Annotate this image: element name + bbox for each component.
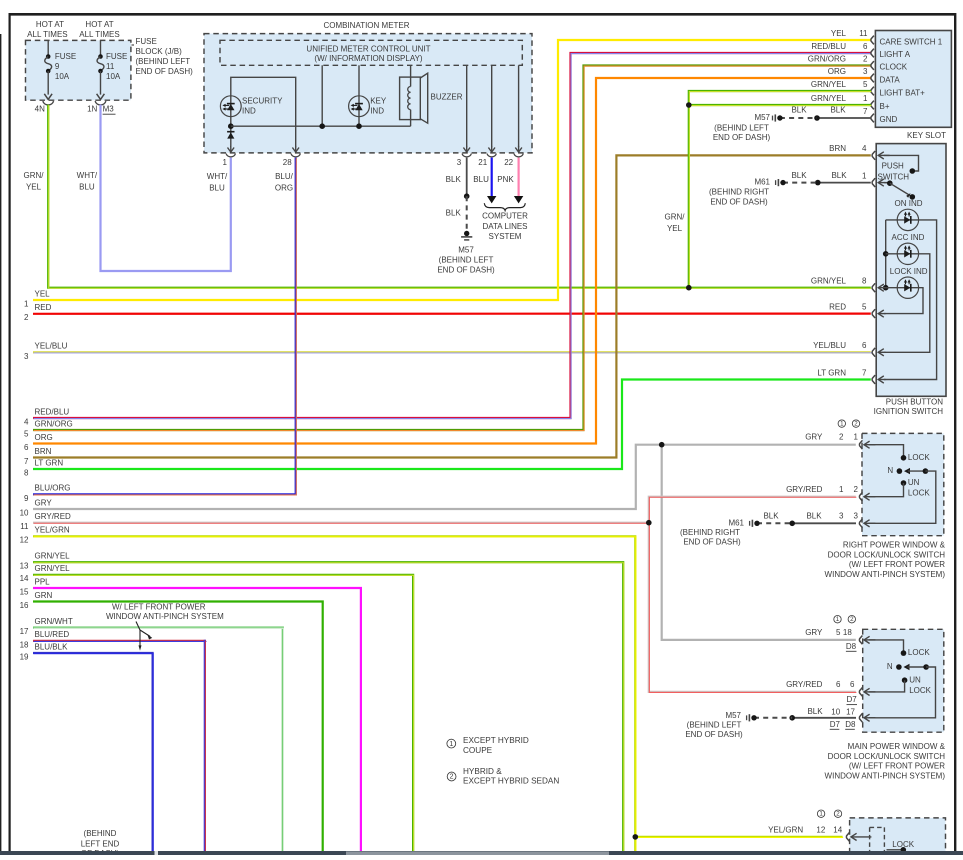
svg-text:GRY/RED: GRY/RED bbox=[35, 512, 72, 521]
label BLK pin 3 lower bbox=[446, 209, 462, 218]
combination meter pin 1 bbox=[223, 146, 236, 167]
label wire 17 bbox=[20, 617, 73, 636]
rear switch lock contact bbox=[887, 840, 915, 853]
svg-text:GRN/YEL: GRN/YEL bbox=[811, 94, 847, 103]
label ON IND bbox=[895, 199, 923, 208]
junction dot under key IND bbox=[356, 123, 362, 129]
label BLK pin 3 upper bbox=[446, 175, 462, 184]
svg-text:BRN: BRN bbox=[829, 144, 846, 153]
svg-text:M61: M61 bbox=[754, 178, 770, 187]
svg-text:6: 6 bbox=[850, 680, 855, 689]
combination meter box bbox=[204, 34, 532, 153]
wire unified unit to pin 21 bbox=[491, 65, 493, 147]
ON IND LED bbox=[897, 209, 918, 230]
connector 1N bbox=[87, 101, 106, 114]
right switch unlock contact bbox=[869, 478, 930, 498]
key slot pin 2 bbox=[808, 55, 874, 70]
wire 18 BLU/RED vertical bbox=[204, 640, 207, 852]
main switch lock contact wire bbox=[869, 640, 930, 657]
svg-text:YEL: YEL bbox=[667, 224, 683, 233]
right switch pin BLK bbox=[839, 511, 875, 527]
svg-text:BLU: BLU bbox=[209, 184, 225, 193]
svg-text:RED: RED bbox=[35, 303, 52, 312]
connector 4N bbox=[35, 101, 54, 114]
key slot pin 3 bbox=[828, 67, 874, 82]
wire 6 ORG bbox=[33, 78, 871, 444]
svg-text:28: 28 bbox=[283, 158, 292, 167]
svg-text:BLK: BLK bbox=[763, 511, 779, 520]
svg-text:4: 4 bbox=[24, 417, 29, 426]
label wire 4 bbox=[24, 407, 69, 426]
label HOT AT ALL TIMES fuse 11 bbox=[79, 20, 119, 39]
svg-text:3: 3 bbox=[457, 158, 462, 167]
svg-text:RED/BLU: RED/BLU bbox=[811, 42, 846, 51]
label (BEHIND LEFT END OF DASH) key slot ground bbox=[713, 123, 771, 142]
label wire 6 bbox=[24, 433, 53, 452]
wire GRN/YEL key slot pin 1 stub bbox=[689, 104, 872, 107]
svg-text:BLU/RED: BLU/RED bbox=[35, 630, 70, 639]
right switch pin GRY bbox=[805, 433, 875, 449]
svg-text:BLK: BLK bbox=[791, 171, 807, 180]
svg-text:2: 2 bbox=[839, 433, 844, 442]
junction dot BLK pin 3 bbox=[464, 193, 470, 199]
svg-text:1: 1 bbox=[819, 811, 823, 818]
dashed wire BLK to ground M57 key slot bbox=[780, 117, 817, 119]
svg-text:9: 9 bbox=[24, 494, 29, 503]
svg-text:3: 3 bbox=[854, 511, 859, 520]
security IND LED bbox=[220, 96, 283, 117]
fuse block (J/B) box bbox=[26, 40, 131, 100]
svg-text:COUPE: COUPE bbox=[463, 746, 493, 755]
svg-text:ALL TIMES: ALL TIMES bbox=[27, 30, 67, 39]
svg-text:1N: 1N bbox=[87, 105, 97, 114]
bus wire inside combination meter bbox=[231, 125, 411, 127]
label ACC IND bbox=[892, 233, 925, 242]
svg-text:ALL TIMES: ALL TIMES bbox=[79, 30, 119, 39]
svg-text:GRY: GRY bbox=[805, 433, 823, 442]
svg-text:8: 8 bbox=[862, 277, 867, 286]
fuse 11 10A bbox=[97, 40, 105, 99]
wire 8 LT GRN bbox=[33, 380, 871, 470]
svg-text:14: 14 bbox=[833, 826, 842, 835]
label MAIN POWER WINDOW & DOOR LOCK/UNLOCK SWITCH bbox=[825, 742, 946, 780]
wire PNK from combination meter pin 22 bbox=[514, 158, 523, 204]
ground M57 key slot bbox=[754, 113, 782, 122]
svg-text:GRY: GRY bbox=[805, 628, 823, 637]
svg-text:(BEHIND LEFT: (BEHIND LEFT bbox=[439, 256, 494, 265]
dashed wire BLK to ground M57 bbox=[466, 196, 468, 231]
svg-text:GRN/YEL: GRN/YEL bbox=[35, 552, 71, 561]
svg-text:17: 17 bbox=[20, 627, 29, 636]
svg-text:LOCK: LOCK bbox=[909, 686, 931, 695]
svg-text:9: 9 bbox=[55, 62, 60, 71]
svg-text:ORG: ORG bbox=[35, 433, 53, 442]
legend note 1 EXCEPT HYBRID COUPE bbox=[447, 736, 529, 755]
wire 7 BRN bbox=[33, 155, 871, 457]
combination meter pin 22 bbox=[504, 146, 523, 167]
LOCK IND wire to pin 5 bbox=[884, 288, 923, 314]
right power window & door lock/unlock switch box bbox=[862, 433, 944, 535]
wire BLK right switch solid bbox=[792, 522, 856, 524]
labels BLK right switch bbox=[763, 511, 822, 520]
svg-text:IND: IND bbox=[370, 107, 384, 116]
wire 2 RED bbox=[33, 313, 871, 315]
svg-text:(W/ INFORMATION DISPLAY): (W/ INFORMATION DISPLAY) bbox=[314, 54, 422, 63]
svg-text:RED: RED bbox=[829, 302, 846, 311]
svg-text:1: 1 bbox=[839, 485, 844, 494]
main switch N contact bbox=[887, 662, 929, 671]
label wire 19 bbox=[20, 642, 68, 661]
label wire 7 bbox=[24, 447, 52, 466]
connector M3 bbox=[103, 105, 116, 115]
svg-text:3: 3 bbox=[863, 67, 868, 76]
svg-text:SWITCH: SWITCH bbox=[878, 172, 910, 181]
ground M61 push button bbox=[754, 178, 785, 187]
label PUSH SWITCH bbox=[878, 162, 910, 182]
svg-text:5: 5 bbox=[24, 429, 29, 438]
svg-text:HOT AT: HOT AT bbox=[85, 20, 113, 29]
svg-text:END OF DASH): END OF DASH) bbox=[136, 67, 194, 76]
svg-text:DOOR LOCK/UNLOCK SWITCH: DOOR LOCK/UNLOCK SWITCH bbox=[828, 550, 946, 559]
svg-text:WINDOW ANTI-PINCH SYSTEM): WINDOW ANTI-PINCH SYSTEM) bbox=[825, 570, 946, 579]
svg-text:YEL/GRN: YEL/GRN bbox=[768, 826, 803, 835]
label wire 10 bbox=[20, 498, 53, 517]
svg-text:M57: M57 bbox=[458, 246, 474, 255]
svg-text:LOCK: LOCK bbox=[908, 489, 930, 498]
ON IND wire to pin 7 bbox=[884, 220, 937, 380]
junction dot LOCK left pin 8 bbox=[883, 285, 889, 291]
svg-text:6: 6 bbox=[24, 443, 29, 452]
svg-text:10A: 10A bbox=[106, 72, 121, 81]
svg-text:BLK: BLK bbox=[806, 511, 822, 520]
svg-text:BLK: BLK bbox=[807, 707, 823, 716]
svg-text:21: 21 bbox=[478, 158, 487, 167]
label wire 9 bbox=[24, 484, 70, 503]
ACC IND LED bbox=[897, 243, 918, 264]
label FUSE BLOCK (J/B) (BEHIND LEFT END OF DASH) bbox=[131, 37, 193, 115]
svg-text:13: 13 bbox=[20, 562, 29, 571]
svg-text:CLOCK: CLOCK bbox=[880, 63, 908, 72]
svg-text:LEFT END: LEFT END bbox=[81, 840, 120, 849]
wire BLU from combination meter pin 21 bbox=[487, 158, 496, 204]
svg-text:(BEHIND: (BEHIND bbox=[84, 829, 117, 838]
label wire 16 bbox=[20, 591, 53, 610]
svg-text:LT GRN: LT GRN bbox=[817, 368, 846, 377]
push button pin 8 bbox=[811, 277, 887, 293]
svg-text:7: 7 bbox=[863, 107, 868, 116]
svg-text:(W/ LEFT FRONT POWER: (W/ LEFT FRONT POWER bbox=[849, 762, 945, 771]
svg-text:2: 2 bbox=[863, 55, 868, 64]
dashed wire BLK to ground M57 main switch bbox=[754, 717, 792, 719]
key IND LED bbox=[349, 96, 387, 117]
svg-text:GRY/RED: GRY/RED bbox=[786, 485, 823, 494]
svg-text:10A: 10A bbox=[55, 72, 70, 81]
svg-text:GRN/: GRN/ bbox=[665, 213, 686, 222]
label D8 main bbox=[846, 642, 857, 651]
label BLU/ORG at pin 28 bbox=[275, 172, 294, 193]
wire GRY/RED branch down to main switch bbox=[649, 523, 857, 693]
svg-text:M3: M3 bbox=[103, 105, 115, 114]
svg-text:D7: D7 bbox=[847, 695, 858, 704]
svg-text:2: 2 bbox=[836, 811, 840, 818]
circled 1 rear switch bbox=[817, 810, 824, 818]
svg-text:LOCK IND: LOCK IND bbox=[890, 267, 928, 276]
svg-text:IGNITION SWITCH: IGNITION SWITCH bbox=[874, 407, 944, 416]
svg-text:2: 2 bbox=[850, 616, 854, 623]
svg-text:FUSE: FUSE bbox=[55, 52, 76, 61]
wire 17 GRN/WHT bbox=[33, 628, 283, 852]
svg-text:1: 1 bbox=[836, 616, 840, 623]
svg-text:BLU: BLU bbox=[473, 175, 489, 184]
svg-text:16: 16 bbox=[20, 601, 29, 610]
svg-text:END OF DASH): END OF DASH) bbox=[437, 265, 495, 274]
svg-text:BUZZER: BUZZER bbox=[431, 92, 463, 101]
key slot pin 11 bbox=[831, 29, 874, 44]
svg-text:YEL/BLU: YEL/BLU bbox=[813, 341, 846, 350]
svg-text:BLU/ORG: BLU/ORG bbox=[35, 484, 71, 493]
svg-text:FUSE: FUSE bbox=[106, 52, 127, 61]
wire GRN/YEL from fuse 9 connector 4N to pin 8 horizontal bus bbox=[48, 105, 871, 289]
svg-text:M57: M57 bbox=[754, 113, 770, 122]
svg-text:12: 12 bbox=[20, 536, 29, 545]
key slot pin 6 bbox=[811, 42, 874, 57]
LOCK IND LED bbox=[897, 277, 918, 298]
dashed wire BLK to ground M61 bbox=[783, 182, 818, 184]
svg-text:RED/BLU: RED/BLU bbox=[35, 407, 70, 416]
junction dot GRY/RED bbox=[646, 520, 652, 526]
svg-text:YEL: YEL bbox=[26, 183, 42, 192]
svg-text:BLK: BLK bbox=[791, 105, 807, 114]
label WHT/BLU at pin 1 bbox=[207, 172, 228, 193]
svg-text:GRN/YEL: GRN/YEL bbox=[811, 277, 847, 286]
svg-text:WINDOW ANTI-PINCH SYSTEM: WINDOW ANTI-PINCH SYSTEM bbox=[106, 612, 224, 621]
svg-text:GRY: GRY bbox=[35, 498, 53, 507]
push switch wire loop bbox=[884, 155, 919, 171]
wire 19 BLU/BLK bbox=[33, 653, 153, 852]
label GRN/YEL vertical wire bbox=[665, 213, 686, 234]
wire BLK push button pin 1 solid bbox=[818, 182, 871, 184]
svg-text:GRN/: GRN/ bbox=[24, 171, 45, 180]
label GRN/YEL left vertical bbox=[24, 171, 45, 192]
svg-text:YEL: YEL bbox=[35, 289, 51, 298]
svg-text:18: 18 bbox=[843, 628, 852, 637]
wire unified unit to bus bbox=[321, 65, 323, 126]
svg-text:COMBINATION METER: COMBINATION METER bbox=[323, 21, 409, 30]
wire GRY/RED branch up to right switch bbox=[649, 497, 857, 524]
junction dot GRN/YEL bus bbox=[686, 285, 692, 291]
svg-text:1: 1 bbox=[223, 158, 228, 167]
svg-text:BLOCK (J/B): BLOCK (J/B) bbox=[136, 47, 183, 56]
svg-text:END OF DASH): END OF DASH) bbox=[685, 730, 743, 739]
label D7 main bbox=[847, 695, 858, 704]
svg-text:END OF DASH): END OF DASH) bbox=[683, 538, 741, 547]
svg-text:EXCEPT HYBRID: EXCEPT HYBRID bbox=[463, 736, 529, 745]
label BLK main switch bbox=[807, 707, 823, 716]
svg-text:LT GRN: LT GRN bbox=[35, 458, 64, 467]
svg-text:EXCEPT HYBRID SEDAN: EXCEPT HYBRID SEDAN bbox=[463, 776, 559, 785]
main switch pin BLK bbox=[831, 708, 875, 723]
push button ignition switch box bbox=[876, 144, 946, 397]
svg-text:MAIN POWER WINDOW &: MAIN POWER WINDOW & bbox=[848, 742, 946, 751]
push button pin 6 bbox=[813, 341, 886, 357]
svg-text:GRN/ORG: GRN/ORG bbox=[808, 55, 846, 64]
svg-text:IND: IND bbox=[242, 107, 256, 116]
right switch lock contact wire bbox=[869, 445, 930, 462]
buzzer bbox=[400, 73, 463, 126]
svg-text:B+: B+ bbox=[880, 102, 890, 111]
note W/ LEFT FRONT POWER WINDOW ANTI-PINCH SYSTEM with arrows bbox=[106, 602, 224, 650]
svg-text:18: 18 bbox=[20, 640, 29, 649]
svg-text:ORG: ORG bbox=[828, 67, 846, 76]
fuse 9 10A bbox=[44, 40, 52, 99]
junction dot BLK key slot bbox=[814, 115, 820, 121]
junction dot ACC left bbox=[883, 251, 889, 257]
svg-text:GRN/ORG: GRN/ORG bbox=[35, 419, 73, 428]
wire WHT/BLU from fuse 11 connector 1N to combination meter pin 1 bbox=[101, 105, 231, 271]
push button ignition switch pin 4 bbox=[829, 144, 889, 160]
svg-text:HYBRID &: HYBRID & bbox=[463, 767, 502, 776]
svg-text:15: 15 bbox=[20, 587, 29, 596]
wire unified unit to buzzer bbox=[410, 65, 412, 86]
svg-text:HOT AT: HOT AT bbox=[36, 20, 64, 29]
svg-text:5: 5 bbox=[862, 302, 867, 311]
svg-text:(BEHIND LEFT: (BEHIND LEFT bbox=[714, 123, 769, 132]
svg-text:1: 1 bbox=[840, 421, 844, 428]
svg-text:GRY/RED: GRY/RED bbox=[786, 680, 823, 689]
svg-text:SECURITY: SECURITY bbox=[242, 97, 283, 106]
svg-text:LOCK: LOCK bbox=[908, 648, 930, 657]
unified meter control unit box bbox=[220, 40, 522, 65]
wire GRN/YEL key slot pin 5 vertical bbox=[689, 91, 872, 288]
wire 1 YEL bbox=[33, 40, 871, 300]
junction dot YEL/GRN bbox=[633, 834, 639, 840]
label wire 18 bbox=[20, 630, 70, 649]
wire unified unit through key IND to bus bbox=[358, 65, 360, 126]
svg-text:DATA: DATA bbox=[880, 75, 901, 84]
svg-text:UNIFIED METER CONTROL UNIT: UNIFIED METER CONTROL UNIT bbox=[306, 44, 430, 53]
svg-text:1: 1 bbox=[854, 433, 859, 442]
label wire 12 bbox=[20, 526, 70, 545]
label HOT AT ALL TIMES fuse 9 bbox=[27, 20, 67, 39]
wire unified unit to pin 3 bbox=[466, 65, 468, 147]
wire 12 YEL/GRN bbox=[33, 536, 636, 851]
svg-text:COMPUTER: COMPUTER bbox=[482, 212, 528, 221]
wire GRY branch to main switch bbox=[662, 445, 856, 640]
wire YEL/GRN branch to rear switch pin bbox=[635, 836, 843, 839]
svg-text:19: 19 bbox=[20, 652, 29, 661]
svg-text:YEL/BLU: YEL/BLU bbox=[35, 342, 68, 351]
svg-text:BLU/BLK: BLU/BLK bbox=[35, 642, 69, 651]
combination meter pin 21 bbox=[478, 146, 496, 167]
label wire 5 bbox=[24, 419, 73, 438]
label wire 8 bbox=[24, 458, 63, 477]
svg-text:BRN: BRN bbox=[35, 447, 52, 456]
svg-text:(BEHIND RIGHT: (BEHIND RIGHT bbox=[680, 528, 740, 537]
svg-text:5: 5 bbox=[836, 628, 841, 637]
svg-text:ON IND: ON IND bbox=[895, 199, 923, 208]
legend note 2 HYBRID & EXCEPT HYBRID SEDAN bbox=[447, 767, 559, 786]
svg-text:10: 10 bbox=[831, 708, 840, 717]
svg-text:N: N bbox=[887, 466, 893, 475]
main switch unlock contact bbox=[869, 675, 932, 695]
push switch fixed contact dot bbox=[910, 168, 916, 174]
key slot pin 7 bbox=[863, 107, 874, 122]
svg-text:D8: D8 bbox=[846, 642, 857, 651]
combination meter pin 3 bbox=[457, 146, 472, 167]
svg-text:WHT/: WHT/ bbox=[207, 172, 228, 181]
wire BLK key slot pin 7 solid bbox=[817, 117, 871, 119]
svg-text:ACC IND: ACC IND bbox=[892, 233, 925, 242]
ground M61 right switch bbox=[728, 518, 759, 527]
svg-text:1: 1 bbox=[449, 741, 453, 748]
svg-text:GRN/YEL: GRN/YEL bbox=[811, 80, 847, 89]
labels BLK key slot bbox=[791, 105, 846, 114]
svg-text:2: 2 bbox=[450, 774, 454, 781]
label RIGHT POWER WINDOW & DOOR LOCK/UNLOCK SWITCH bbox=[825, 541, 946, 579]
svg-text:LIGHT A: LIGHT A bbox=[880, 50, 911, 59]
combination meter pin 28 bbox=[283, 146, 301, 167]
svg-text:12: 12 bbox=[816, 826, 825, 835]
svg-text:2: 2 bbox=[854, 421, 858, 428]
svg-text:DATA LINES: DATA LINES bbox=[482, 222, 527, 231]
junction dot GRY bbox=[659, 442, 665, 448]
main switch pin GRY bbox=[805, 628, 875, 644]
svg-text:(W/ LEFT FRONT POWER: (W/ LEFT FRONT POWER bbox=[849, 560, 945, 569]
ACC IND wire to pin 6 bbox=[884, 254, 930, 352]
circled 2 main switch bbox=[848, 616, 855, 624]
svg-text:W/ LEFT FRONT POWER: W/ LEFT FRONT POWER bbox=[112, 602, 206, 611]
svg-text:GRN: GRN bbox=[35, 591, 53, 600]
wire 14 GRN/YEL bbox=[33, 575, 414, 852]
svg-text:UN: UN bbox=[909, 675, 921, 684]
svg-text:BLU/: BLU/ bbox=[275, 172, 294, 181]
svg-text:14: 14 bbox=[20, 574, 29, 583]
svg-text:UN: UN bbox=[908, 478, 920, 487]
label LOCK IND bbox=[890, 267, 928, 276]
bottom scrollbar bbox=[0, 851, 963, 856]
key slot pin 1 bbox=[811, 94, 874, 109]
svg-text:BLU: BLU bbox=[79, 183, 95, 192]
svg-text:(BEHIND LEFT: (BEHIND LEFT bbox=[687, 720, 742, 729]
label PNK pin 22 bbox=[497, 175, 514, 184]
svg-text:1: 1 bbox=[862, 171, 867, 180]
push button ignition switch pin 1 bbox=[862, 171, 890, 187]
label PUSH BUTTON IGNITION SWITCH bbox=[874, 398, 944, 417]
push switch arm bbox=[884, 180, 915, 199]
svg-text:22: 22 bbox=[504, 158, 513, 167]
label wire 13 bbox=[20, 552, 71, 571]
svg-text:ORG: ORG bbox=[275, 184, 293, 193]
svg-text:GND: GND bbox=[880, 115, 898, 124]
right switch N contact bbox=[887, 466, 928, 475]
label wire 11 bbox=[20, 512, 71, 531]
svg-text:3: 3 bbox=[24, 352, 29, 361]
svg-text:M57: M57 bbox=[725, 711, 741, 720]
svg-text:BLK: BLK bbox=[831, 171, 847, 180]
dashed wire BLK to ground M61 right switch bbox=[757, 522, 792, 524]
label WHT/BLU left vertical bbox=[77, 171, 98, 192]
svg-text:6: 6 bbox=[836, 680, 841, 689]
wire 3 YEL/BLU bbox=[33, 351, 871, 354]
label BLU pin 21 bbox=[473, 175, 489, 184]
svg-text:FUSE: FUSE bbox=[136, 37, 157, 46]
svg-text:BLK: BLK bbox=[830, 105, 846, 114]
svg-text:SYSTEM: SYSTEM bbox=[489, 232, 522, 241]
svg-text:LOCK: LOCK bbox=[908, 453, 930, 462]
svg-text:1: 1 bbox=[863, 94, 868, 103]
svg-text:M61: M61 bbox=[728, 518, 744, 527]
svg-text:11: 11 bbox=[20, 522, 29, 531]
